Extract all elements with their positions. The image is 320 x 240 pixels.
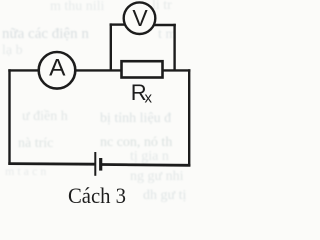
ammeter A circle — [39, 52, 76, 89]
svg-text:nữa các điện n: nữa các điện n — [2, 26, 89, 42]
svg-text:x: x — [145, 90, 153, 107]
svg-text:ư điền h: ư điền h — [22, 109, 68, 124]
voltmeter branch: right horizontal stub — [154, 24, 176, 26]
wire: ammeter to resistor box — [75, 69, 122, 71]
battery: long thin plate (positive) — [94, 152, 96, 176]
svg-text:ng gư nhi: ng gư nhi — [130, 169, 184, 184]
svg-text:tị gia n: tị gia n — [130, 149, 169, 164]
svg-text:lạ b: lạ b — [2, 43, 23, 58]
voltmeter V circle — [124, 2, 156, 34]
svg-text:m thu nili: m thu nili — [50, 0, 105, 14]
wire: bottom-right horizontal (battery to corner) — [102, 163, 191, 167]
svg-text:nà tríc: nà tríc — [18, 136, 53, 151]
resistor Rx box — [122, 61, 163, 77]
voltmeter branch: right vertical wire — [173, 24, 175, 71]
wire: right vertical of outer loop — [188, 69, 190, 166]
wire: left vertical of outer loop — [8, 69, 10, 164]
wire: bottom-left horizontal (corner to battery) — [8, 162, 94, 165]
svg-text:A: A — [49, 55, 66, 82]
voltmeter branch: left vertical wire — [110, 23, 112, 70]
wire: resistor box to top-right corner — [163, 69, 191, 71]
voltmeter branch: left horizontal stub — [110, 23, 125, 25]
svg-text:Cách 3: Cách 3 — [68, 183, 126, 208]
svg-text:bị tỉnh liệu đ: bị tỉnh liệu đ — [100, 111, 171, 126]
svg-text:dh gư tị: dh gư tị — [143, 188, 186, 203]
wire: top-left horizontal (corner to ammeter) — [8, 69, 39, 71]
svg-text:m t a c n: m t a c n — [5, 164, 46, 178]
battery: short thick plate (negative) — [99, 158, 102, 171]
svg-text:V: V — [132, 5, 148, 31]
ghost bleed-through text (decorative background) — [2, 0, 186, 203]
svg-text:li tr: li tr — [152, 0, 172, 13]
svg-text:nc con, nó th: nc con, nó th — [100, 135, 172, 150]
